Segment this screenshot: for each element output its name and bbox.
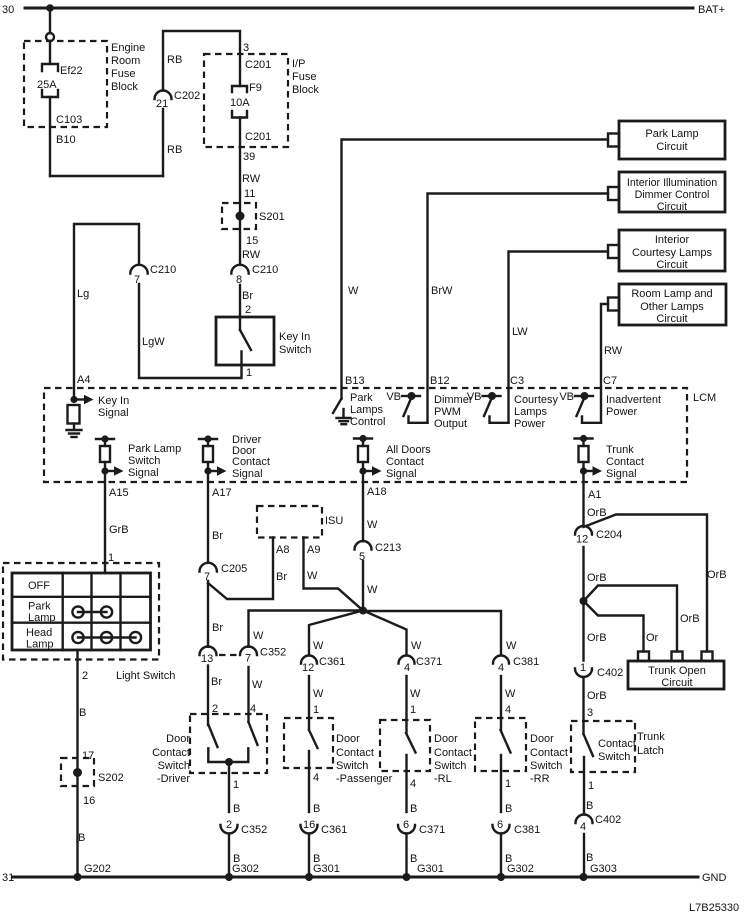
svg-text:30: 30 — [2, 4, 14, 16]
svg-text:Switch: Switch — [128, 455, 160, 467]
box Room Lamp and Other Lamps Circuit — [619, 284, 726, 325]
svg-text:Lamp: Lamp — [28, 612, 56, 624]
I/P Fuse Block dashed box — [204, 54, 288, 147]
svg-text:RB: RB — [167, 144, 182, 156]
svg-text:Switch: Switch — [158, 760, 190, 772]
wire C371-6 to ground — [405, 834, 407, 878]
svg-text:C210: C210 — [150, 264, 176, 276]
svg-text:OrB: OrB — [707, 569, 727, 581]
svg-text:Signal: Signal — [606, 468, 637, 480]
svg-text:Door: Door — [166, 733, 190, 745]
label Trunk Contact Signal — [606, 444, 644, 480]
svg-text:C381: C381 — [513, 656, 539, 668]
connector stub room lamp circuit — [608, 298, 619, 311]
switch blade driver pin2 — [209, 725, 218, 747]
svg-text:Circuit: Circuit — [661, 677, 692, 689]
connector C352 pin 13 arc — [200, 647, 217, 656]
svg-text:Trunk Open: Trunk Open — [648, 665, 706, 677]
svg-text:1: 1 — [410, 704, 416, 716]
svg-text:Key In: Key In — [98, 395, 129, 407]
connector C371 pin 4 arc — [399, 656, 415, 664]
svg-text:Switch: Switch — [530, 760, 562, 772]
connector C205 pin 7 arc — [200, 563, 217, 572]
svg-text:-RL: -RL — [434, 773, 452, 785]
connector C352 pin 2 cup arc — [221, 825, 238, 834]
svg-text:7: 7 — [134, 274, 140, 286]
wire A15 to light switch — [104, 471, 106, 573]
wire branch over to right OrB drop — [584, 515, 708, 652]
svg-text:S201: S201 — [259, 211, 285, 223]
svg-text:6: 6 — [403, 819, 409, 831]
Key In Switch box — [216, 317, 274, 365]
box Interior Courtesy Lamps Circuit — [619, 230, 725, 271]
svg-text:Trunk: Trunk — [606, 444, 634, 456]
svg-text:Inadvertent: Inadvertent — [606, 394, 661, 406]
connector C210 pin 7 arc — [130, 265, 147, 274]
connector C381 pin 4 arc — [493, 656, 509, 664]
svg-text:Courtesy: Courtesy — [514, 394, 559, 406]
svg-text:VB: VB — [467, 391, 482, 403]
Door Contact Switch RL dashed box — [380, 720, 430, 771]
pin all doors contact signal — [354, 435, 382, 476]
svg-text:C361: C361 — [319, 656, 345, 668]
svg-text:LCM: LCM — [693, 392, 716, 404]
svg-text:GrB: GrB — [109, 524, 129, 536]
svg-text:G303: G303 — [590, 863, 617, 875]
label Head Lamp — [26, 627, 54, 651]
svg-text:4: 4 — [313, 772, 319, 784]
svg-text:Lamps: Lamps — [350, 404, 384, 416]
svg-text:1: 1 — [505, 778, 511, 790]
node trunk junction — [580, 597, 588, 605]
svg-text:W: W — [367, 584, 378, 596]
switch C7 inadvertent power — [575, 392, 601, 423]
head lamp row contacts — [72, 632, 141, 643]
switch B13 park lamps control blade — [333, 399, 342, 414]
svg-text:C402: C402 — [595, 814, 621, 826]
svg-text:G301: G301 — [417, 863, 444, 875]
svg-text:3: 3 — [243, 42, 249, 54]
LCM dashed box — [44, 388, 687, 482]
label Trunk Open Circuit — [648, 665, 706, 689]
svg-text:Circuit: Circuit — [656, 141, 687, 153]
wire junction to C361 — [309, 611, 363, 656]
switch blade RR — [501, 730, 511, 753]
svg-text:RW: RW — [604, 345, 623, 357]
pin park lamp switch signal — [96, 435, 124, 475]
svg-text:Head: Head — [26, 627, 52, 639]
wire up to C202 — [162, 109, 164, 176]
svg-text:C202: C202 — [174, 90, 200, 102]
svg-text:BrW: BrW — [431, 285, 453, 297]
svg-text:Switch: Switch — [279, 344, 311, 356]
wire C352-13 to driver switch pin 2 — [207, 666, 209, 726]
label Park Lamps Control — [350, 392, 385, 428]
svg-text:W: W — [505, 688, 516, 700]
svg-text:W: W — [313, 688, 324, 700]
svg-text:C402: C402 — [597, 667, 623, 679]
label Contact Switch — [598, 738, 636, 763]
svg-text:Contact: Contact — [152, 747, 190, 759]
box Park Lamp Circuit — [619, 121, 725, 159]
svg-text:Park Lamp: Park Lamp — [128, 443, 181, 455]
svg-text:F9: F9 — [249, 82, 262, 94]
Door Contact Switch RR dashed box — [475, 718, 526, 771]
svg-text:S202: S202 — [98, 772, 124, 784]
svg-text:C201: C201 — [245, 131, 271, 143]
label Door Contact Switch -RL — [434, 733, 472, 785]
pin trunk contact signal — [575, 435, 603, 476]
wire driver switch to C352-2 — [228, 762, 230, 812]
connector C402 pin 1 cup arc — [575, 669, 592, 678]
svg-text:Circuit: Circuit — [656, 313, 687, 325]
park lamp row contacts — [72, 606, 112, 617]
connector C210 pin 8 arc — [231, 265, 248, 274]
wire C210-7 up over and down to A4 — [74, 224, 139, 399]
svg-text:Circuit: Circuit — [656, 259, 687, 271]
svg-text:B: B — [586, 800, 593, 812]
svg-text:Interior: Interior — [655, 234, 690, 246]
connector C361 pin 12 arc — [301, 656, 317, 664]
wire courtesy feed — [509, 252, 609, 423]
svg-text:Control: Control — [350, 416, 385, 428]
switch blade driver pin4 — [249, 722, 258, 745]
node G202 — [74, 873, 82, 881]
svg-text:VB: VB — [559, 391, 574, 403]
wire trunk lower contact — [583, 757, 585, 815]
wire park lamp feed — [342, 140, 609, 399]
connector stub Or — [638, 652, 649, 662]
svg-text:OrB: OrB — [587, 632, 607, 644]
svg-text:C210: C210 — [252, 264, 278, 276]
wire junction to left drop — [584, 601, 644, 652]
svg-text:A18: A18 — [367, 486, 387, 498]
svg-text:Switch: Switch — [598, 751, 630, 763]
svg-text:Contact: Contact — [434, 747, 472, 759]
connector C204 pin 12 arc — [575, 526, 592, 535]
svg-text:Power: Power — [514, 418, 546, 430]
connector stub park lamp circuit — [608, 134, 619, 147]
wire RL lower contact — [405, 755, 407, 812]
svg-text:-Passenger: -Passenger — [336, 773, 393, 785]
svg-text:C3: C3 — [510, 375, 524, 387]
svg-text:W: W — [410, 688, 421, 700]
svg-text:Contact: Contact — [530, 747, 568, 759]
svg-text:-RR: -RR — [530, 773, 550, 785]
svg-text:12: 12 — [576, 534, 588, 546]
pin driver door contact signal — [199, 435, 227, 475]
svg-text:B10: B10 — [56, 134, 76, 146]
connector C361 pin 16 cup arc — [301, 825, 318, 834]
label Dimmer PWM Output — [434, 394, 473, 430]
wire C371-4 to RL switch — [405, 676, 407, 733]
node G302 RR — [497, 873, 505, 881]
svg-text:I/P: I/P — [292, 58, 305, 70]
svg-text:A4: A4 — [77, 374, 90, 386]
switch blade RL — [406, 733, 416, 753]
light switch table frame — [12, 573, 151, 650]
node G301 RL — [403, 873, 411, 881]
svg-text:2: 2 — [226, 819, 232, 831]
wire A17 to C205 — [207, 471, 209, 563]
wire branch to ISU A8 — [208, 538, 273, 600]
svg-text:G302: G302 — [232, 863, 259, 875]
svg-text:B: B — [505, 803, 512, 815]
label Park Lamp — [28, 601, 56, 625]
splice S201 dashed box — [222, 203, 256, 229]
svg-text:RW: RW — [242, 249, 261, 261]
svg-text:Park: Park — [350, 392, 373, 404]
svg-text:All Doors: All Doors — [386, 444, 431, 456]
svg-text:Signal: Signal — [232, 468, 263, 480]
svg-text:Signal: Signal — [128, 467, 159, 479]
svg-text:RB: RB — [167, 54, 182, 66]
svg-text:Key In: Key In — [279, 331, 310, 343]
wire F9 to S201 to C210 — [239, 118, 241, 265]
svg-text:ISU: ISU — [325, 515, 343, 527]
connector stub courtesy circuit — [608, 245, 619, 258]
svg-text:A1: A1 — [588, 489, 601, 501]
fuse F9 — [232, 86, 247, 118]
svg-text:1: 1 — [580, 662, 586, 674]
wire room lamp feed — [601, 304, 608, 423]
svg-text:13: 13 — [201, 653, 213, 665]
svg-text:A15: A15 — [109, 487, 129, 499]
svg-text:15: 15 — [246, 235, 258, 247]
svg-text:A9: A9 — [307, 544, 320, 556]
wire C210 to key switch — [239, 285, 241, 330]
svg-text:C205: C205 — [221, 563, 247, 575]
switch blade key in — [240, 330, 251, 350]
svg-text:C352: C352 — [241, 824, 267, 836]
connector C402 pin 4 arc — [576, 815, 593, 824]
svg-text:12: 12 — [302, 662, 314, 674]
box Interior Illumination Dimmer Control Circuit — [619, 172, 725, 212]
svg-text:39: 39 — [243, 151, 255, 163]
wire C402 to trunk switch — [582, 677, 584, 734]
Door Contact Switch Driver dashed box — [190, 714, 267, 773]
label Inadvertent Power — [606, 394, 661, 418]
svg-text:Contact: Contact — [606, 456, 644, 468]
driver switch common bracket — [208, 748, 248, 762]
svg-text:C381: C381 — [514, 824, 540, 836]
svg-text:C201: C201 — [245, 59, 271, 71]
svg-text:Block: Block — [292, 84, 319, 96]
svg-text:Or: Or — [646, 632, 659, 644]
ground at A4 resistor — [67, 430, 82, 437]
wire A1 to C204 — [582, 471, 584, 526]
svg-text:RW: RW — [242, 173, 261, 185]
switch B12 dimmer output — [402, 392, 428, 423]
svg-text:Room Lamp and: Room Lamp and — [631, 288, 712, 300]
svg-text:G301: G301 — [313, 863, 340, 875]
wire C352-7 to driver switch pin 4 — [247, 667, 249, 722]
node junction on bus — [46, 4, 54, 12]
svg-text:OrB: OrB — [680, 613, 700, 625]
head lamp row contact line — [78, 636, 136, 638]
park lamp row contact line — [78, 611, 107, 613]
svg-text:4: 4 — [404, 662, 410, 674]
svg-text:B13: B13 — [345, 375, 365, 387]
svg-text:2: 2 — [245, 304, 251, 316]
svg-text:25A: 25A — [37, 79, 57, 91]
svg-text:VB: VB — [386, 391, 401, 403]
svg-text:C371: C371 — [419, 824, 445, 836]
svg-text:L7B25330: L7B25330 — [689, 902, 739, 914]
wire junction left to C352-7 — [249, 611, 364, 647]
wire circle to fuse — [49, 41, 51, 64]
svg-text:Lamps: Lamps — [514, 406, 548, 418]
svg-text:Trunk: Trunk — [637, 731, 665, 743]
svg-text:W: W — [348, 285, 359, 297]
svg-text:Circuit: Circuit — [657, 201, 687, 213]
svg-text:Door: Door — [336, 733, 360, 745]
wire C381-4 to RR switch — [500, 676, 502, 730]
switch blade passenger — [309, 730, 318, 748]
terminal circle at fuse block — [46, 33, 54, 41]
label Door Contact Switch -RR — [530, 733, 568, 785]
svg-text:Light Switch: Light Switch — [116, 670, 175, 682]
svg-text:Br: Br — [212, 622, 223, 634]
wire resistor to ground — [73, 424, 75, 430]
Trunk Contact Switch dashed box — [571, 721, 635, 772]
table row lines — [12, 597, 151, 623]
svg-text:B12: B12 — [430, 375, 450, 387]
wire dimmer feed — [428, 194, 609, 423]
connector C381 pin 6 cup arc — [493, 825, 510, 834]
splice S202 dot — [73, 768, 82, 777]
svg-text:C213: C213 — [375, 542, 401, 554]
svg-text:Park Lamp: Park Lamp — [645, 128, 698, 140]
label Door Contact Switch -Passenger — [336, 733, 393, 785]
svg-text:Dimmer Control: Dimmer Control — [635, 189, 710, 201]
wire pin1 out of key switch — [139, 284, 242, 378]
svg-text:Other Lamps: Other Lamps — [640, 301, 704, 313]
wire ISU A9 to junction — [304, 538, 364, 611]
svg-text:C361: C361 — [321, 824, 347, 836]
svg-text:Door: Door — [434, 733, 458, 745]
svg-text:B: B — [313, 803, 320, 815]
svg-text:3: 3 — [587, 707, 593, 719]
wire C204 to junction — [582, 547, 584, 661]
svg-text:Contact: Contact — [598, 738, 636, 750]
wire light switch pin 2 to S202 to G202 — [76, 650, 78, 877]
label Park Lamp Switch Signal — [128, 443, 181, 479]
svg-text:Br: Br — [211, 676, 222, 688]
box Trunk Open Circuit — [628, 661, 724, 689]
svg-text:Lg: Lg — [77, 288, 89, 300]
wire C352-2 to ground — [228, 834, 230, 878]
svg-text:16: 16 — [303, 819, 315, 831]
svg-text:A8: A8 — [276, 544, 289, 556]
svg-text:Room: Room — [111, 55, 140, 67]
svg-text:W: W — [313, 640, 324, 652]
ground at B13 — [337, 409, 351, 424]
svg-text:4: 4 — [505, 704, 511, 716]
node G301 passenger — [305, 873, 313, 881]
svg-text:B: B — [79, 707, 86, 719]
svg-text:B: B — [78, 832, 85, 844]
connector C213 pin 5 arc — [355, 541, 372, 550]
svg-text:Ef22: Ef22 — [60, 65, 83, 77]
svg-text:Power: Power — [606, 406, 638, 418]
table column lines — [63, 573, 121, 650]
svg-text:4: 4 — [498, 662, 504, 674]
wire C202 up and over to IP block — [163, 31, 240, 91]
wire horizontal to C202 — [50, 175, 163, 177]
connector stub OrB middle — [672, 652, 683, 662]
svg-text:1: 1 — [233, 779, 239, 791]
svg-text:W: W — [252, 679, 263, 691]
svg-text:21: 21 — [156, 98, 168, 110]
svg-text:C371: C371 — [416, 656, 442, 668]
svg-text:Courtesy Lamps: Courtesy Lamps — [632, 247, 713, 259]
svg-text:W: W — [411, 640, 422, 652]
svg-text:LW: LW — [512, 326, 528, 338]
connector C352 pin 7 arc — [240, 647, 257, 656]
svg-text:LgW: LgW — [142, 336, 165, 348]
svg-text:OrB: OrB — [587, 690, 607, 702]
svg-text:11: 11 — [244, 188, 255, 200]
svg-text:10A: 10A — [230, 97, 250, 109]
svg-text:Signal: Signal — [386, 468, 417, 480]
svg-text:B: B — [410, 803, 417, 815]
wire C361-12 to passenger switch — [308, 676, 310, 730]
svg-text:1: 1 — [246, 367, 252, 379]
svg-text:Switch: Switch — [434, 760, 466, 772]
connector stub OrB right — [702, 652, 713, 662]
svg-text:W: W — [506, 640, 517, 652]
svg-text:4: 4 — [410, 778, 416, 790]
node G302 driver — [225, 873, 233, 881]
svg-text:C204: C204 — [596, 529, 622, 541]
fuse Ef22 — [42, 64, 58, 97]
svg-text:4: 4 — [580, 821, 586, 833]
svg-text:W: W — [367, 519, 378, 531]
svg-text:Block: Block — [111, 81, 138, 93]
wire ground bus — [13, 876, 698, 879]
connector C371 pin 6 cup arc — [398, 825, 415, 834]
svg-text:17: 17 — [82, 750, 94, 762]
svg-text:G302: G302 — [507, 863, 534, 875]
wire C361-16 to ground — [308, 834, 310, 878]
label Driver Door Contact Signal — [232, 434, 270, 480]
svg-text:Lamp: Lamp — [26, 639, 54, 651]
resistor in LCM at A4 — [68, 405, 80, 424]
svg-text:Park: Park — [28, 601, 51, 613]
svg-text:PWM: PWM — [434, 406, 461, 418]
svg-text:Br: Br — [242, 290, 253, 302]
node G303 trunk — [580, 873, 588, 881]
svg-text:OrB: OrB — [587, 507, 607, 519]
switch C3 courtesy lamps power — [483, 392, 509, 423]
svg-text:Engine: Engine — [111, 42, 145, 54]
wire BAT+ bus — [25, 7, 693, 10]
splice S202 dashed box — [61, 758, 94, 786]
svg-text:7: 7 — [245, 653, 251, 665]
Engine Room Fuse Block dashed box — [24, 41, 107, 127]
wire C402-4 to ground — [583, 834, 585, 877]
svg-text:B: B — [233, 803, 240, 815]
label Key In Signal — [98, 395, 129, 419]
svg-text:Output: Output — [434, 418, 467, 430]
svg-text:1: 1 — [313, 704, 319, 716]
connector C202 arc — [155, 91, 172, 100]
svg-text:C7: C7 — [603, 375, 617, 387]
wire C381-6 to ground — [500, 834, 502, 878]
wire bus to fuse block — [49, 8, 51, 33]
svg-text:Contact: Contact — [232, 456, 270, 468]
